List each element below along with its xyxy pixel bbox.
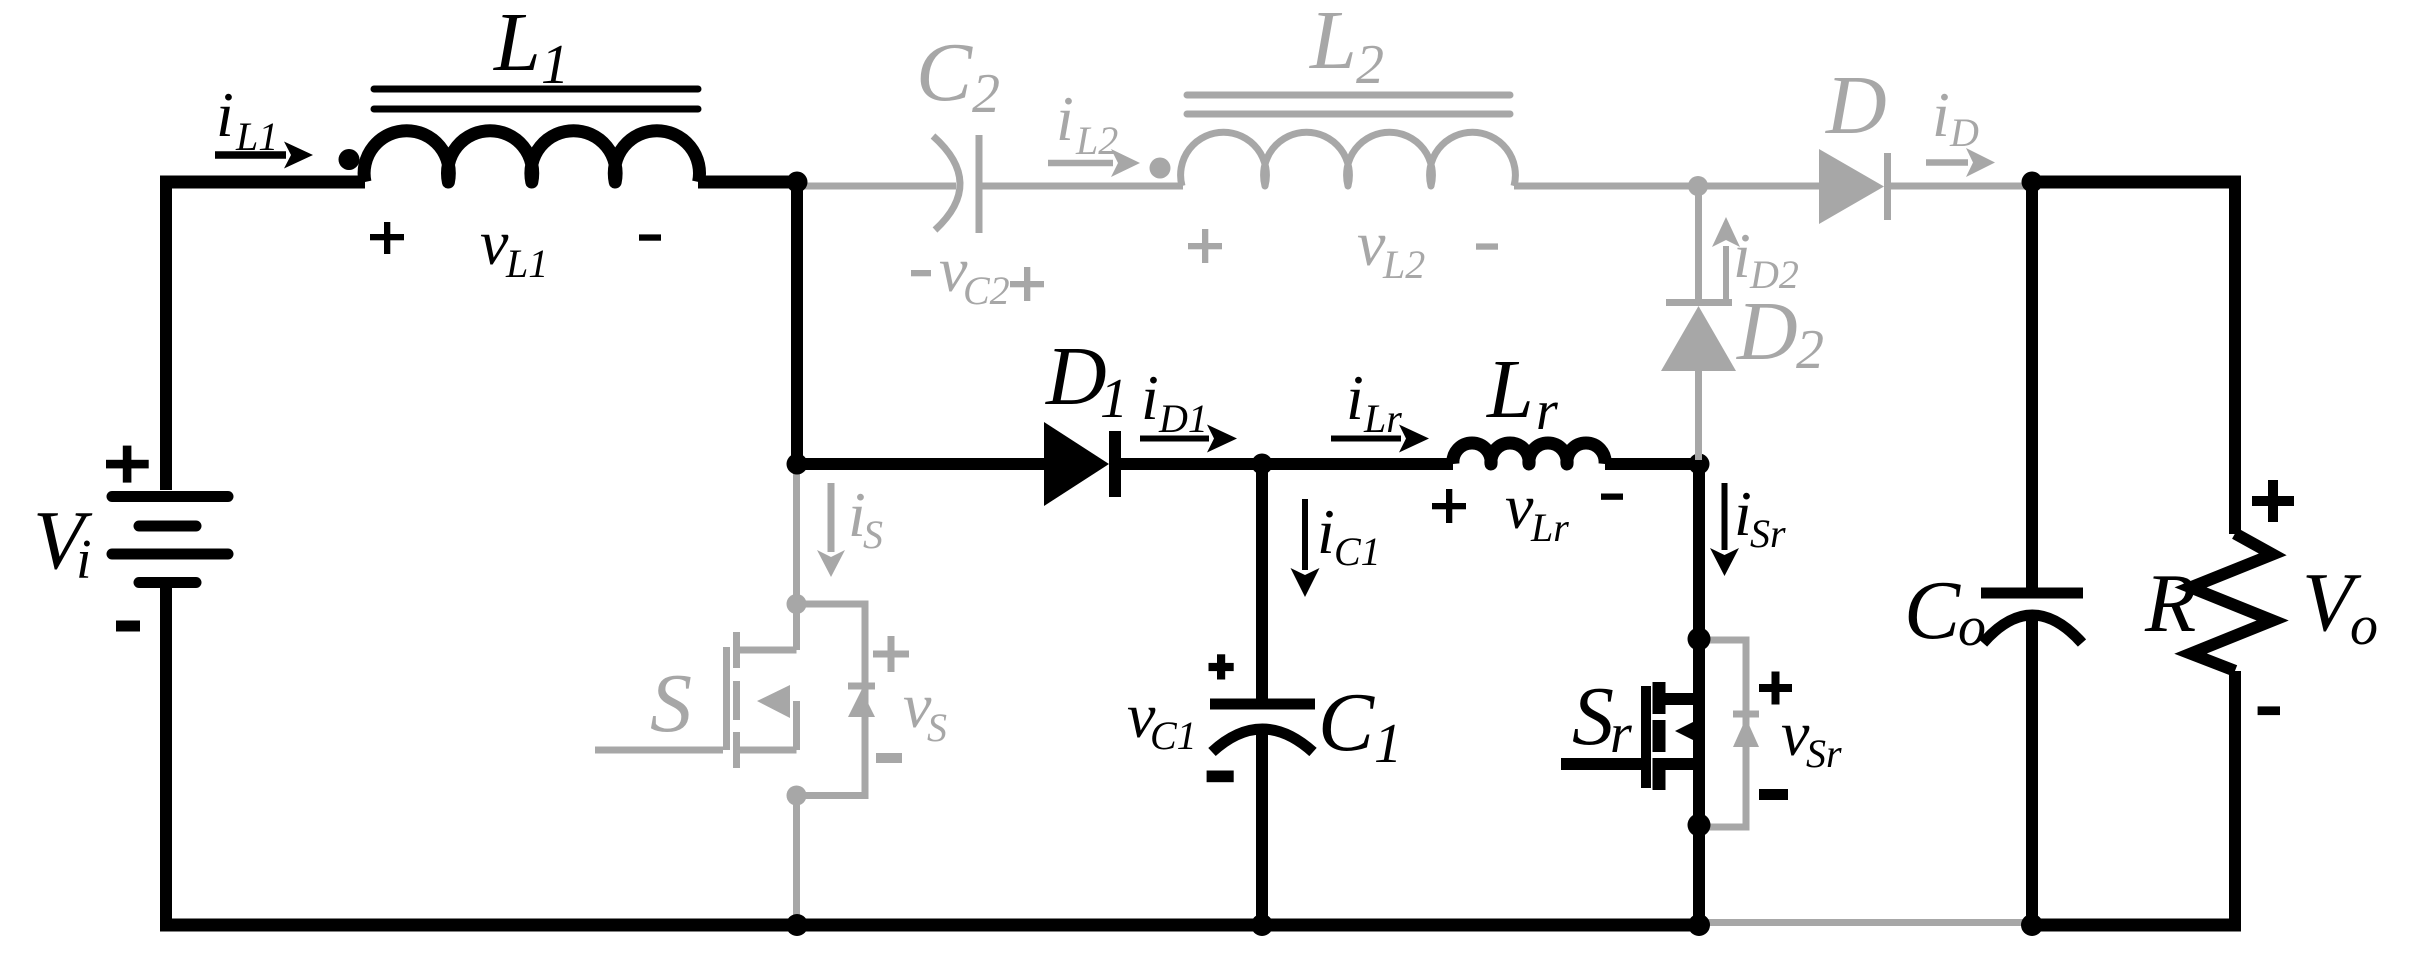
v_Lr minus sign	[1601, 494, 1623, 500]
svg-text:L: L	[1486, 343, 1534, 436]
wire: middle rail Lr to node G	[1605, 458, 1699, 470]
arrow i_D1	[1140, 425, 1237, 453]
svg-text:2: 2	[1356, 34, 1384, 96]
node G junction dot (1699,464)	[1689, 454, 1710, 475]
transistor S body diode loop wire	[797, 604, 866, 796]
v_C1 minus sign	[1207, 771, 1234, 783]
transistor S body vertical	[793, 701, 800, 750]
svg-text:D: D	[1736, 285, 1798, 378]
label v_C2	[939, 234, 1010, 313]
label i_Lr	[1346, 362, 1402, 441]
label i_L1	[216, 79, 278, 159]
label Co	[1904, 564, 1986, 658]
L2 phasing dot	[1150, 158, 1171, 179]
svg-text:S: S	[927, 705, 947, 750]
label C2	[916, 26, 1000, 125]
label Vi	[33, 494, 93, 591]
capacitor Co flat plate	[1981, 588, 2083, 599]
Sr body diode triangle	[1733, 718, 1759, 747]
node H junction dot (1699,925)	[1688, 914, 1710, 936]
wire: gray vertical D2 anode to node G	[1695, 371, 1702, 460]
v_Sr minus sign	[1759, 789, 1788, 800]
arrow i_Sr	[1710, 483, 1739, 576]
S source node gray dot (796.5,795.5)	[787, 786, 807, 806]
transistor Sr drain stub	[1659, 693, 1699, 705]
wire: vertical node G to Sr drain node	[1693, 464, 1705, 639]
svg-text:L2: L2	[1075, 118, 1118, 163]
capacitor C2 straight plate	[976, 135, 983, 233]
label -vC2+ plus sign	[1010, 267, 1044, 301]
wire: gray top rail node A to C2	[797, 183, 956, 190]
transistor Sr body arrow	[1675, 719, 1699, 743]
label v_L1	[480, 207, 548, 286]
wire: left vertical (battery branch) upper	[160, 176, 172, 490]
svg-text:R: R	[2144, 557, 2196, 650]
svg-text:C2: C2	[963, 268, 1010, 313]
svg-text:v: v	[1357, 208, 1386, 279]
wire: right vertical below R	[2229, 671, 2241, 925]
L2 core line upper	[1187, 92, 1510, 99]
transistor S body diode cathode bar	[848, 683, 875, 690]
diode D cathode bar	[1884, 153, 1891, 220]
transistor Sr gate plate	[1641, 686, 1651, 788]
svg-text:L: L	[1309, 0, 1357, 87]
svg-text:r: r	[1536, 380, 1558, 442]
resistor R zigzag	[2191, 534, 2273, 671]
Vo minus sign	[2258, 706, 2280, 715]
arrow i_Lr	[1331, 425, 1429, 453]
wire: right vertical above R	[2229, 182, 2241, 534]
svg-text:D1: D1	[1158, 396, 1208, 441]
Sr body diode loop wire	[1699, 640, 1746, 827]
label i_C1	[1317, 496, 1381, 574]
v_L1 plus sign	[370, 222, 404, 254]
v_L1 minus sign	[639, 234, 661, 240]
svg-text:i: i	[1733, 220, 1751, 291]
inductor L2	[1181, 132, 1516, 186]
arrow i_D2	[1712, 217, 1740, 303]
svg-text:i: i	[1932, 79, 1950, 150]
label i_D1	[1141, 362, 1208, 441]
label Sr	[1572, 670, 1632, 765]
wire: bottom rail black right	[2026, 919, 2241, 932]
wire: vertical Co down to node K	[2026, 618, 2038, 925]
wire: gray top rail C2 to L2	[979, 183, 1183, 190]
wire: gray vertical node C to D2 cathode	[1695, 186, 1702, 299]
wire: vertical C1 down to bottom rail	[1256, 728, 1268, 925]
wire: middle rail D1 to node F	[1121, 458, 1262, 470]
node E junction dot (2032,182)	[2022, 172, 2043, 193]
transistor S source stub	[736, 747, 797, 754]
label i_L2	[1056, 83, 1118, 163]
transistor S gate lead	[595, 747, 723, 754]
diode D1 cathode bar	[1109, 431, 1121, 497]
svg-text:1: 1	[1374, 713, 1402, 775]
label L1	[493, 0, 569, 96]
svg-text:C1: C1	[1334, 529, 1381, 574]
svg-text:2: 2	[972, 63, 1000, 125]
Vo plus sign	[2252, 480, 2294, 522]
label i_D	[1932, 79, 1979, 155]
v_S minus sign	[876, 753, 902, 763]
transistor Sr channel segment top	[1653, 682, 1666, 714]
svg-text:i: i	[216, 79, 234, 150]
label v_C1	[1127, 680, 1197, 758]
battery plus sign	[106, 446, 149, 483]
svg-text:L2: L2	[1382, 242, 1425, 287]
svg-text:o: o	[1958, 596, 1986, 658]
wire: Sr internal vertical	[1693, 639, 1705, 925]
node C gray junction dot (1698,186)	[1688, 176, 1708, 196]
svg-text:1: 1	[541, 34, 569, 96]
wire: middle rail node B to D1	[797, 458, 1045, 470]
svg-text:D: D	[1825, 59, 1887, 152]
transistor Sr gate lead	[1561, 758, 1649, 770]
label v_Sr	[1781, 698, 1842, 776]
label Lr	[1486, 343, 1558, 442]
arrow i_L2	[1048, 149, 1140, 177]
svg-text:S: S	[650, 657, 692, 750]
battery Vi	[112, 497, 228, 583]
node A junction dot (797,182)	[787, 172, 808, 193]
diode D1 triangle	[1044, 422, 1109, 506]
wire: gray vertical node B to S drain	[793, 464, 800, 604]
svg-text:Sr: Sr	[1806, 731, 1842, 776]
arrow i_D	[1926, 148, 1995, 177]
wire: vertical node F down to C1	[1256, 464, 1268, 699]
svg-text:Sr: Sr	[1750, 511, 1786, 556]
v_L2 minus sign	[1476, 243, 1498, 249]
transistor Sr channel segment bottom	[1653, 758, 1666, 790]
svg-text:S: S	[1572, 670, 1614, 763]
wire: top rail left (battery top to L1)	[160, 176, 365, 189]
wire: vertical node A down to node B	[791, 182, 803, 464]
svg-text:i: i	[1056, 83, 1074, 154]
label i_Sr	[1734, 478, 1786, 556]
wire: left vertical below battery	[160, 587, 172, 925]
svg-text:Lr: Lr	[1363, 396, 1402, 441]
label v_Lr	[1505, 471, 1569, 550]
transistor S drain vertical	[793, 604, 800, 650]
inductor Lr	[1453, 443, 1605, 464]
v_S plus sign	[873, 636, 909, 672]
Sr source node dot (1699,825)	[1688, 814, 1711, 837]
label i_D2	[1733, 220, 1799, 297]
wire: bottom rail black left	[160, 919, 1699, 932]
transistor Sr channel segment middle	[1653, 720, 1666, 752]
svg-text:o: o	[2350, 595, 2378, 657]
transistor Sr source stub	[1659, 758, 1699, 770]
label D1	[1045, 330, 1128, 430]
svg-text:C: C	[1904, 564, 1961, 657]
wire: vertical node E down to Co	[2026, 182, 2038, 588]
v_L2 plus sign	[1188, 229, 1222, 263]
transistor S channel segment top	[733, 632, 740, 668]
svg-text:D: D	[1949, 110, 1979, 155]
capacitor Co curved plate	[1983, 615, 2082, 643]
arrow i_S	[817, 483, 845, 577]
label -vC2+ minus sign	[911, 270, 931, 276]
capacitor C1 flat plate	[1210, 699, 1315, 710]
L1 core line lower	[374, 106, 698, 113]
label D2	[1736, 285, 1824, 381]
transistor S channel segment middle	[733, 681, 740, 720]
wire: gray top rail diode D to node E	[1891, 183, 2032, 190]
svg-text:i: i	[1346, 362, 1364, 433]
svg-text:2: 2	[1796, 319, 1824, 381]
battery minus sign	[116, 621, 140, 632]
wire: gray bottom rail node H to node K	[1699, 919, 2032, 926]
svg-text:i: i	[1141, 362, 1159, 433]
label v_S	[903, 670, 947, 750]
L1 core line upper	[374, 86, 698, 93]
wire: gray top rail node C to diode D	[1698, 183, 1819, 190]
node I junction dot (797,925)	[786, 914, 808, 936]
svg-text:v: v	[480, 207, 509, 278]
diode D2 cathode bar	[1666, 299, 1732, 306]
svg-text:C: C	[1318, 676, 1375, 769]
diode D triangle	[1819, 149, 1884, 224]
label L2	[1309, 0, 1384, 96]
transistor S body diode triangle	[848, 690, 875, 717]
inductor L1	[364, 131, 699, 182]
node J junction dot (1262,925)	[1251, 914, 1273, 936]
svg-text:C: C	[916, 26, 973, 119]
Sr body diode cathode bar	[1733, 711, 1759, 718]
node B junction dot (797,464)	[787, 454, 808, 475]
capacitor C2 curved plate	[933, 136, 960, 230]
transistor S body arrow	[757, 685, 790, 718]
svg-text:Lr: Lr	[1530, 505, 1569, 550]
arrow i_C1	[1291, 499, 1320, 597]
svg-text:i: i	[1317, 496, 1335, 567]
v_C1 plus sign	[1209, 654, 1234, 679]
svg-text:1: 1	[1100, 368, 1128, 430]
svg-text:D: D	[1045, 330, 1107, 423]
label v_L2	[1357, 208, 1425, 287]
svg-text:L1: L1	[235, 114, 278, 159]
node K junction dot (2032,925)	[2021, 914, 2043, 936]
svg-text:L: L	[493, 0, 541, 89]
label C1	[1318, 676, 1402, 775]
S drain node gray dot (796.5,604)	[787, 594, 807, 614]
label Vo	[2302, 556, 2378, 657]
transistor S gate plate	[723, 647, 730, 750]
label i_S	[848, 479, 883, 557]
svg-text:S: S	[863, 512, 883, 557]
wire: top rail black right (node E to R corner)	[2026, 176, 2241, 189]
svg-text:r: r	[1610, 703, 1632, 765]
v_Sr plus sign	[1759, 672, 1792, 705]
transistor S channel segment bottom	[733, 732, 740, 768]
Sr drain node dot (1699,639)	[1688, 628, 1711, 651]
svg-text:v: v	[1505, 471, 1534, 542]
wire: gray top rail L2 to node C	[1514, 183, 1698, 190]
wire: middle rail node F to Lr	[1262, 458, 1453, 470]
node F junction dot (1262,464)	[1252, 454, 1273, 475]
capacitor C1 curved plate	[1212, 729, 1313, 752]
v_Lr plus sign	[1432, 489, 1466, 523]
L2 core line lower	[1187, 111, 1510, 118]
wire: top rail L1 to node A	[698, 176, 797, 189]
wire: gray vertical S source to bottom rail	[793, 796, 800, 923]
svg-text:C1: C1	[1150, 713, 1197, 758]
svg-text:L1: L1	[505, 241, 548, 286]
diode D2 triangle	[1661, 306, 1736, 371]
svg-text:i: i	[76, 529, 92, 591]
arrow i_L1	[215, 142, 313, 169]
transistor S drain stub	[740, 647, 797, 654]
L1 phasing dot	[339, 149, 360, 170]
